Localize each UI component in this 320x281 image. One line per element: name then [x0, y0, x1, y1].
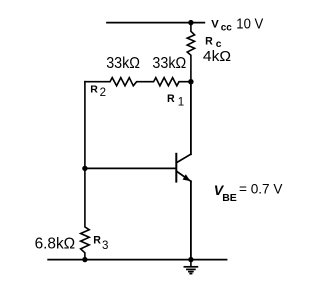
svg-text:R: R: [93, 234, 101, 246]
svg-text:= 0.7 V: = 0.7 V: [239, 182, 282, 197]
svg-text:10 V: 10 V: [236, 16, 263, 32]
svg-text:4kΩ: 4kΩ: [203, 49, 231, 65]
svg-text:33kΩ: 33kΩ: [106, 55, 140, 72]
svg-text:R: R: [167, 93, 175, 105]
svg-text:R: R: [90, 84, 98, 96]
svg-text:R: R: [205, 36, 213, 48]
svg-text:2: 2: [100, 87, 106, 99]
svg-text:3: 3: [102, 240, 108, 252]
svg-text:cc: cc: [221, 23, 233, 34]
svg-text:33kΩ: 33kΩ: [152, 55, 186, 72]
svg-text:1: 1: [178, 97, 184, 109]
svg-text:BE: BE: [222, 192, 237, 204]
svg-text:V: V: [211, 19, 219, 31]
svg-text:6.8kΩ: 6.8kΩ: [35, 236, 76, 253]
